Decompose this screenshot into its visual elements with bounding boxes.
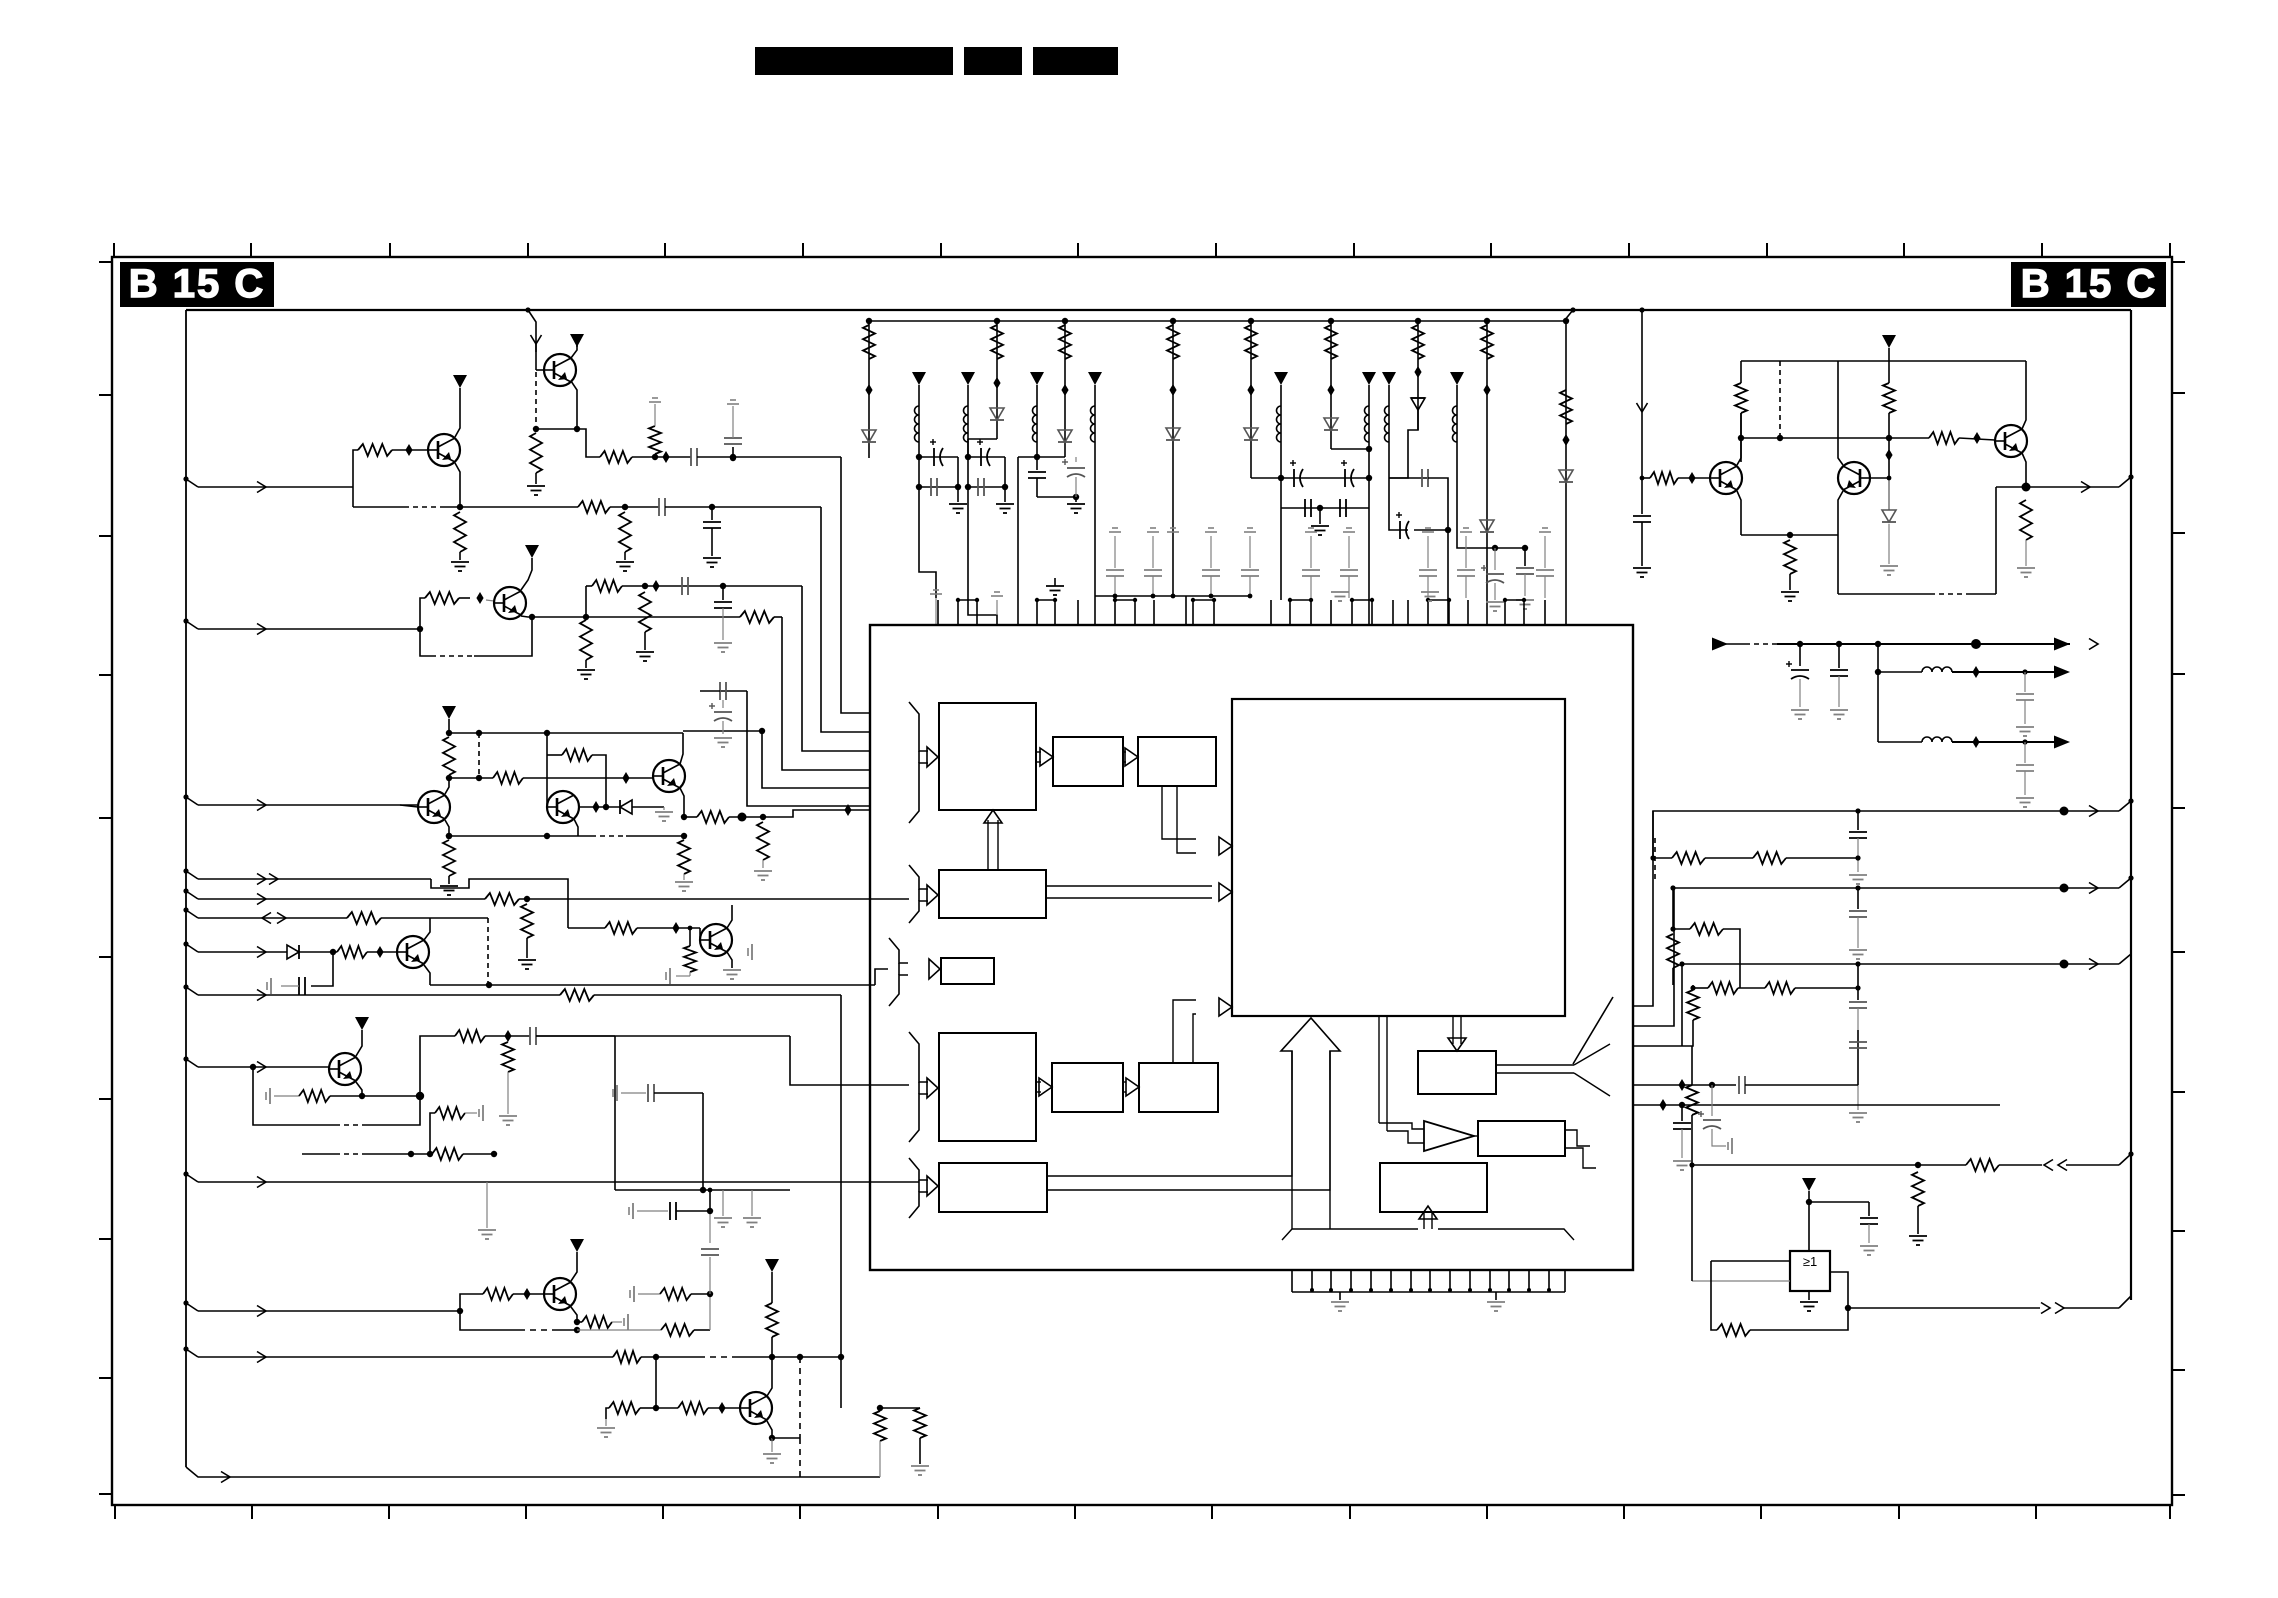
- node dot y586: [642, 583, 648, 589]
- diamond below rail: [1885, 449, 1892, 461]
- redacted title bar 2: [964, 47, 1022, 75]
- wire loop lower: [253, 1067, 335, 1125]
- wire y1036 to chevron4: [615, 1035, 790, 1037]
- stalk TS1 drop to IC: [919, 487, 936, 598]
- triangle stalk TS8: [1450, 372, 1464, 385]
- input line IN10: [183, 1300, 188, 1305]
- redacted title bar 1: [755, 47, 953, 75]
- block B7: [939, 1033, 1036, 1141]
- power arrow VCC trio: [442, 706, 456, 719]
- triangle stalk TS6 with coil drop: [1362, 372, 1376, 385]
- resistor R6: [578, 501, 610, 513]
- gray cap stalk chain: [1109, 531, 1121, 533]
- resistor R1: [530, 433, 542, 473]
- arrow B1-B2: [1036, 751, 1041, 753]
- node with diamond marker: [652, 454, 658, 460]
- input line IN9: [183, 1056, 188, 1061]
- diamond Q9: [1688, 472, 1695, 484]
- wire to chevron3: [875, 969, 888, 985]
- resistor stalk RS6: [1328, 318, 1334, 324]
- filled arrow C: [2054, 736, 2070, 749]
- block B10 row2: [939, 1163, 1047, 1212]
- diamond node y1036: [504, 1030, 511, 1042]
- stub elbow links: [958, 599, 977, 601]
- wire elbow y617 to IC: [782, 617, 870, 770]
- ground below R1: [527, 485, 545, 487]
- arrow B5 up to B1: [987, 820, 989, 870]
- ground below C4: [703, 557, 721, 559]
- wire gate supply: [1808, 1191, 1810, 1251]
- triangle stalk TS7 with coil drop: [1382, 372, 1396, 385]
- chassis sym right: [751, 944, 753, 960]
- diamond Q7: [376, 946, 383, 958]
- ground below R7: [616, 561, 634, 563]
- wire drop to top-right section: [1639, 307, 1644, 312]
- capacitor C15 with ground: [2024, 742, 2026, 763]
- wire ladder top: [1652, 811, 1654, 858]
- capacitor C4 vertical: [711, 507, 713, 520]
- capacitor C6 vertical with ground: [720, 583, 726, 589]
- wire collector bus y617: [532, 616, 740, 618]
- input chevron CH2: [909, 865, 928, 889]
- filled arrow A: [2054, 638, 2070, 651]
- small box bottom right of stalks: [1457, 500, 1495, 548]
- big node dot: [738, 813, 747, 822]
- resistor stalk RS2: [994, 318, 1000, 324]
- emitter resistor R18 row y817: [684, 816, 697, 818]
- resistor R17 below bus: [678, 840, 690, 874]
- resistor R35: [455, 1030, 485, 1042]
- wire Q1 output to R2: [577, 429, 600, 457]
- resistor R42: [613, 1351, 641, 1363]
- capacitor C2 vertical with test point: [730, 454, 736, 460]
- wire x710 up to bus: [709, 1190, 711, 1211]
- amplifier triangle A1: [1424, 1121, 1474, 1151]
- transistor Q5 base drop: [546, 733, 548, 807]
- resistor R23 vertical with ground: [1784, 540, 1796, 574]
- resistor R21 vertical: [1740, 361, 1742, 383]
- double chevron arrows in: [2044, 1160, 2053, 1171]
- electrolytic C10 with ground: [1073, 494, 1079, 500]
- right edge tick marks: [2171, 261, 2185, 263]
- double bus B5 to core: [1046, 885, 1212, 887]
- wire drop from top rail to Q1: [525, 307, 530, 312]
- power arrow gate: [1802, 1178, 1816, 1191]
- node on line y964: [1679, 961, 1684, 966]
- wire cluster right caps: [1447, 530, 1449, 560]
- input line IN12: [183, 1171, 188, 1176]
- hook wires after B11: [1565, 1130, 1590, 1146]
- resistor R7 vertical: [619, 512, 631, 552]
- ground below R5: [451, 561, 469, 563]
- block B11 after amp: [1478, 1121, 1565, 1156]
- big node: [416, 1092, 424, 1100]
- ground below R17: [675, 881, 693, 883]
- ground right of D1: [655, 811, 673, 813]
- block B13 bottom: [1380, 1163, 1487, 1212]
- transistor Q6: [653, 760, 685, 792]
- wire loop bottom Q13: [460, 1311, 519, 1330]
- wire from Q3 up to y586: [585, 586, 587, 614]
- core block B4 large: [1232, 699, 1565, 1016]
- feedback resistor R52: [1711, 1261, 1717, 1330]
- big junction dot: [1971, 639, 1981, 649]
- diode D3: [287, 945, 299, 959]
- capacitor C19 with ground: [1681, 1105, 1683, 1121]
- node dot: [622, 504, 628, 510]
- cap row y1211: [632, 1203, 634, 1219]
- power arrow VCC Q2: [453, 375, 467, 388]
- test point gray 2: [991, 595, 1003, 597]
- diamond Q14: [718, 1402, 725, 1414]
- capacitor C5: [681, 577, 683, 595]
- dashed bottom row: [302, 1153, 335, 1155]
- wire T2 base loop: [353, 450, 358, 487]
- resistor stalk RS4 long: [1170, 318, 1176, 324]
- line y964 to border: [1682, 964, 2119, 1046]
- wire feed x1692 down: [1691, 1046, 1693, 1085]
- transistor Q1: [536, 369, 545, 371]
- resistor R27 below IC with ground: [914, 1408, 926, 1438]
- input chevron CH5: [909, 1158, 928, 1180]
- electrolytic C20 with chassis: [1711, 1085, 1713, 1116]
- transistor Q14: [740, 1392, 772, 1424]
- diagonal to border y964: [2119, 954, 2131, 964]
- diamond and diode row y807: [592, 801, 599, 813]
- wire drop x1018 to IC: [1017, 457, 1019, 625]
- transistor Q9: [1710, 462, 1742, 494]
- power arrow VCC Q14: [765, 1259, 779, 1272]
- extra grounds strip: [1331, 591, 1349, 593]
- wire lower right lines: [1634, 1084, 1682, 1086]
- resistor R44 to ground: [609, 1407, 656, 1409]
- triangle stalk TS1 with coil: [912, 372, 926, 385]
- wire T3 base loop: [420, 598, 425, 629]
- ground below R16: [440, 885, 458, 887]
- zener D2 gray with ground: [1882, 510, 1896, 522]
- svg-text:≥1: ≥1: [1803, 1254, 1817, 1269]
- resistor R10 on y586 row: [510, 585, 592, 587]
- wire Q1 collector node: [571, 381, 577, 429]
- capacitor C9 below TS3: [1034, 454, 1040, 460]
- resistor R19 vertical: [760, 814, 766, 820]
- resistor R32: [560, 989, 594, 1001]
- dashed emitter loop: [420, 629, 431, 656]
- gate input wires: [1711, 1260, 1790, 1262]
- wire elbow y691 to IC: [747, 691, 870, 806]
- resistor R29 vertical with ground: [521, 904, 533, 938]
- wire y1190 to chevron5: [790, 1189, 919, 1191]
- test point gray: [930, 593, 942, 595]
- wire bottom gather y596: [1095, 595, 1250, 597]
- top edge tick marks: [113, 243, 115, 258]
- grid label B15C top-left: [120, 262, 274, 307]
- elbow out y1046 with resistor chain: [1634, 1020, 1693, 1046]
- gate ground: [1808, 1291, 1810, 1300]
- transistor Q4: [400, 805, 418, 807]
- electrolytic C8 with ground: [722, 700, 724, 708]
- capacitor C13 with ground: [1838, 644, 1840, 668]
- capacitor C17 pair: [732, 904, 762, 906]
- cap ladder x1858: [1855, 808, 1860, 813]
- base row y478 top-right: [1642, 477, 1650, 479]
- cap row y1093: [616, 1085, 618, 1101]
- double bus B10 right: [1047, 1080, 1292, 1176]
- transistor Q13: [544, 1278, 576, 1310]
- wire Q8 base row: [699, 939, 701, 941]
- resistor R16 below bus: [446, 833, 452, 839]
- wire Q7 collector up: [424, 925, 430, 940]
- transistor Q7: [397, 936, 429, 968]
- wire supply bus y321: [869, 320, 1564, 322]
- cap row mid2: [1280, 478, 1282, 508]
- diamond Q11: [1973, 432, 1980, 444]
- wire dashed loop bottom right: [1838, 593, 1930, 595]
- wire bus y997 extension: [594, 994, 841, 996]
- resistor stalk RS9 tall right: [1563, 318, 1569, 324]
- input line IN4 double arrow: [183, 868, 188, 873]
- wire inner top rail: [186, 309, 2131, 311]
- resistor chain y988: [1690, 985, 1695, 990]
- output line A with start arrow: [1712, 638, 1728, 651]
- resistor R12 vertical below: [580, 620, 592, 660]
- wire Q10 emitter down: [1838, 491, 1843, 535]
- grounds below y1190: [722, 1190, 724, 1216]
- long drops mid stalks: [1319, 526, 1321, 600]
- diamond node T3: [476, 592, 483, 604]
- resistor R45 base: [678, 1402, 708, 1414]
- bracket bus with flared ends: [1282, 1229, 1418, 1240]
- wire bottom bus y836: [449, 835, 591, 837]
- electrolytic C12 with ground: [1799, 644, 1801, 666]
- arrow B3 to core: [1162, 786, 1196, 839]
- resistor R11 vertical: [639, 592, 651, 632]
- border frame outer rectangle: [112, 257, 2172, 1505]
- capacitor C11 with ground: [1641, 478, 1643, 514]
- wire Q14 emitter down: [767, 1421, 772, 1438]
- resistor R15 upper: [547, 754, 562, 756]
- line C with coil: [1878, 741, 1922, 743]
- resistor R30: [347, 912, 381, 924]
- resistor R22 vertical: [1888, 361, 1890, 383]
- wide arrow shaft to bracket: [1291, 1051, 1293, 1229]
- triangle stalk TS2 with coil: [961, 372, 975, 385]
- svg-text:B 15 C: B 15 C: [129, 262, 266, 306]
- wire Q6 collector: [680, 733, 683, 764]
- input line IN11 bus y1357: [183, 1346, 188, 1351]
- line y1165 to border with resistor: [1692, 1164, 1966, 1166]
- wire inner right rail: [2130, 310, 2132, 1300]
- diamond on output: [844, 804, 851, 816]
- wire emitter row y535: [1741, 534, 1838, 536]
- base resistor row R34: [269, 1088, 271, 1104]
- line B with coil: [1877, 644, 1879, 742]
- wire base loop Q13: [460, 1294, 483, 1311]
- input line IN7: [183, 941, 188, 946]
- transistor Q11 mirrored emitter-up: [1995, 425, 2027, 457]
- wire trio output to IC: [763, 810, 870, 817]
- ground G1: [949, 503, 967, 505]
- block B9: [1139, 1063, 1218, 1112]
- resistor R51 vertical with ground: [1912, 1172, 1924, 1206]
- wire row y1190 grounds: [614, 1035, 616, 1037]
- block oscillator B5: [939, 870, 1046, 918]
- resistor R24 on rail to Q11: [1929, 432, 1959, 444]
- wire y1154 cont: [493, 1153, 495, 1155]
- wire drop x841 long: [840, 995, 842, 1357]
- ground G3: [1067, 503, 1085, 505]
- stalk TS2 drop to IC: [968, 487, 997, 625]
- electrolytic EC and cap pair w/ box: [1492, 545, 1498, 551]
- IC U1 outline: [870, 625, 1633, 1270]
- resistor R13 vertical: [443, 737, 455, 775]
- wire elbow y731 to IC: [683, 730, 762, 732]
- resistor R25 vertical with ground: [2020, 500, 2032, 540]
- transistor Q5: [547, 791, 579, 823]
- big dot and arrow y888: [2060, 884, 2069, 893]
- resistor R9: [740, 611, 774, 623]
- gray cap column x710: [709, 1257, 711, 1294]
- block B12 PLL: [1418, 1051, 1496, 1094]
- transistor Q10 mirrored: [1838, 462, 1870, 494]
- input chevron CH4: [909, 1032, 928, 1082]
- ground pin G6: [1495, 1292, 1497, 1300]
- wire Q5 emitter to bus: [574, 819, 580, 836]
- wire upper output y586: [532, 585, 588, 587]
- input line IN3 to Q4: [183, 794, 188, 799]
- diamond B: [1972, 666, 1979, 678]
- switch diagonal: [1573, 997, 1613, 1064]
- elbow B9 to core: [1173, 1000, 1196, 1063]
- resistor R4: [358, 444, 392, 456]
- capacitor C1: [690, 448, 692, 466]
- left edge tick marks: [99, 261, 113, 263]
- wire Q8 emitter ground: [727, 952, 732, 968]
- transistor Q3: [494, 587, 526, 619]
- wire Q9 emitter: [1737, 491, 1741, 535]
- diagonal to border y888: [2119, 878, 2131, 888]
- transistor Q7 collector link: [429, 918, 431, 925]
- resistor R33 vertical chassis: [689, 939, 691, 941]
- long stalk x1525 to bus: [1524, 321, 1526, 548]
- diamond C: [1972, 736, 1979, 748]
- resistor R28 on IN5: [485, 893, 519, 905]
- dashed link: [1654, 838, 1656, 881]
- output line y1308: [1848, 1307, 2040, 1309]
- gate output wire: [1830, 1272, 1848, 1308]
- wire Q8 collector up: [727, 905, 732, 928]
- wire Q7 emitter down: [424, 965, 430, 985]
- transistor Q8 right group: [568, 927, 605, 929]
- pin stub strip left half: [937, 600, 939, 625]
- resistor R47 vertical: [1670, 926, 1675, 931]
- wire Q11 collector to rail: [2022, 361, 2026, 429]
- resistor R48 vertical: [1686, 1085, 1698, 1115]
- electrolytic mid-right: [1389, 478, 1408, 530]
- wire elbow y507 to IC: [821, 507, 870, 732]
- second resistor set y929: [1670, 885, 1675, 890]
- capacitor C3: [658, 498, 660, 516]
- resistor R36 vertical with ground: [507, 1036, 509, 1067]
- dashed vertical to bottom bus: [772, 1437, 800, 1439]
- diode D1: [620, 800, 632, 814]
- wire y1036 to right: [536, 1035, 790, 1037]
- diagonal to border y1165: [2119, 1154, 2131, 1165]
- notch on line IN4: [431, 879, 568, 928]
- wire trio top bus y733: [449, 732, 683, 734]
- electrolytic pair row 2: [967, 439, 969, 487]
- wire Q4 collector/emitter verticals: [445, 778, 449, 794]
- output arrow to border: [2081, 482, 2090, 493]
- resistor R8: [425, 592, 459, 604]
- wire elbow y458 to IC: [730, 455, 736, 461]
- wire Q13 collector: [571, 1307, 577, 1322]
- ground below C11: [1633, 567, 1651, 569]
- ground pin G5: [1339, 1292, 1341, 1300]
- diamond Q13: [523, 1288, 530, 1300]
- ground below Q14: [771, 1438, 773, 1452]
- wire bottom bus with arrow: [186, 1467, 880, 1477]
- resistor R37: [432, 1148, 463, 1160]
- input line IN2: [183, 618, 188, 623]
- triangle stalk TS5 with coil: [1274, 372, 1288, 385]
- wire Q10 collector up: [1838, 361, 1843, 465]
- wire Q11 emitter down: [2022, 453, 2026, 487]
- dashed drop: [478, 733, 480, 778]
- fan output from B12: [1496, 1064, 1574, 1066]
- series resistors y858: [1650, 855, 1655, 860]
- ground below R12: [577, 669, 595, 671]
- wire base bus y778: [449, 777, 493, 779]
- arrow down from core: [1452, 1016, 1454, 1044]
- wire to cap C21: [1809, 1201, 1869, 1203]
- power arrow top-right: [1882, 335, 1896, 348]
- arrow bracket to B13: [1423, 1213, 1425, 1229]
- input line IN6 bidir: [183, 907, 188, 912]
- capacitor C16 loop: [311, 952, 333, 986]
- block B3: [1138, 737, 1216, 786]
- resistor R20: [1650, 472, 1678, 484]
- resistor R31: [337, 946, 367, 958]
- resistor stalk RS3: [1062, 318, 1068, 324]
- ground G4: [1311, 525, 1329, 527]
- vertical pair from core: [1378, 1016, 1380, 1123]
- dashed drop right: [487, 918, 489, 985]
- wire Q14 collector up: [767, 1357, 772, 1396]
- diode stalk RS8: [1484, 318, 1490, 324]
- big dot and arrow y964: [2060, 960, 2069, 969]
- resistor R2: [600, 451, 632, 463]
- ground G2: [996, 503, 1014, 505]
- resistor R26 below IC: [841, 1357, 880, 1408]
- gray cap link: [1389, 477, 1428, 479]
- arrow B7-B8: [1036, 1081, 1041, 1083]
- wire y1190 left elbow: [614, 1036, 616, 1190]
- big dot and arrow y811: [2060, 807, 2069, 816]
- triangle stalk TS3 with coil: [1030, 372, 1044, 385]
- ground below R11: [636, 651, 654, 653]
- input line IN1: [183, 476, 188, 481]
- resistor R50: [1966, 1159, 1999, 1171]
- electrolytic row mid: [1278, 475, 1284, 481]
- wire bus y507 with dashed segment: [352, 487, 354, 507]
- filled arrow B: [2054, 666, 2070, 679]
- dashed drop right: [1779, 361, 1781, 438]
- transistor Q2: [428, 434, 460, 466]
- resistor R5 below node: [454, 512, 466, 552]
- capacitor C18: [529, 1027, 531, 1045]
- diamond node trio: [622, 772, 629, 784]
